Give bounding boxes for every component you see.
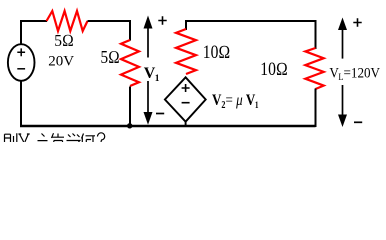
source plus sign — [17, 48, 25, 56]
annotation V1 down arrow — [147, 81, 149, 113]
wire source top lead — [20, 20, 22, 44]
glyph V sub L — [18, 134, 29, 142]
glyph he top — [82, 134, 96, 143]
annotation V1 up arrow — [147, 27, 149, 58]
resistor R4 10ohm right — [305, 48, 323, 89]
svg-text:V1: V1 — [144, 65, 160, 84]
label VL=120V — [329, 65, 380, 82]
svg-text:VL=120V: VL=120V — [329, 65, 380, 82]
label 10ohm middle — [203, 42, 230, 63]
voltage source V 20V — [8, 44, 35, 81]
svg-text:20V: 20V — [48, 53, 74, 69]
label V2 = mu V1 — [212, 92, 259, 110]
annotation VL minus — [354, 121, 362, 123]
junction dot node A — [127, 123, 132, 128]
annotation V1 plus — [158, 16, 166, 24]
svg-text:10Ω: 10Ω — [260, 59, 288, 80]
annotation VL up arrow — [342, 29, 344, 59]
resistor R2 5ohm vertical — [121, 40, 139, 86]
diamond plus sign — [182, 84, 190, 92]
caption text fragment (cut-off chinese question line) — [5, 133, 105, 142]
resistor R3 10ohm middle — [176, 29, 196, 74]
annotation V1 minus — [156, 113, 164, 115]
glyph zhi2 top — [52, 133, 65, 142]
svg-text:5Ω: 5Ω — [101, 47, 120, 68]
glyph ze top — [5, 133, 17, 142]
svg-text:10Ω: 10Ω — [203, 42, 230, 63]
wire branch1 bottom lead — [129, 87, 131, 127]
glyph wei top — [67, 134, 80, 143]
glyph question mark top — [97, 133, 104, 142]
wire diamond bottom stem — [185, 122, 187, 126]
annotation VL plus — [353, 18, 361, 26]
annotation VL down arrow — [342, 85, 344, 115]
resistor R1 5ohm horizontal — [47, 11, 88, 31]
label 5ohm horizontal — [54, 31, 74, 50]
label 5ohm vertical — [101, 47, 120, 68]
dependent source V2 diamond — [165, 77, 206, 121]
wire right branch bottom lead — [315, 89, 317, 128]
wire bottom rail — [20, 125, 316, 127]
diamond minus sign — [182, 102, 190, 104]
wire top rail loop2 — [185, 20, 317, 49]
glyph zhi top — [38, 134, 48, 141]
wire top left segment — [20, 20, 47, 22]
svg-text:5Ω: 5Ω — [54, 31, 74, 50]
source minus sign — [17, 68, 25, 70]
wire branch1 top lead — [129, 20, 131, 41]
svg-text:V2= μ V1: V2= μ V1 — [212, 92, 259, 110]
wire source bottom lead — [20, 82, 22, 128]
label 10ohm right — [260, 59, 288, 80]
wire top right segment loop1 — [88, 20, 132, 22]
